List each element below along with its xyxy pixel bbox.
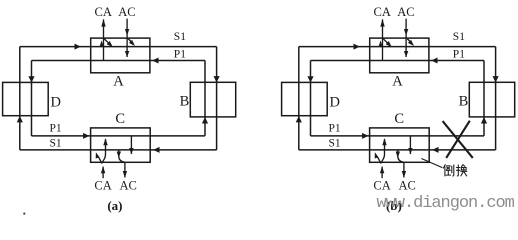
wire S1 top horizontal (a) [20,46,217,48]
svg-text:A: A [392,74,403,90]
box A (a) [91,38,150,73]
wire CA input below box C (b) [381,167,383,179]
switch blade diagonal right in box A (a) [128,39,132,43]
svg-text:AC: AC [118,5,135,19]
wire S1 right vertical (b) [495,47,497,150]
switch blade diagonal left in box C (a) [99,157,103,163]
arrow CA up terminal box A (a) [101,19,105,27]
wire P1 left vertical (a) [31,61,33,136]
svg-text:S1: S1 [174,31,186,43]
svg-text:P1: P1 [174,48,186,60]
box B (a) [190,82,235,117]
arrow P1 bottom flow right into C (b) [362,133,368,139]
box C (a) [91,128,151,162]
arrow AC down into box A (a) [125,29,129,36]
arrow CA up terminal box A (b) [380,19,384,27]
svg-text:A: A [113,74,124,90]
diagram (a) left [3,5,236,213]
wire P1 drop in box C (a) [130,136,132,154]
arrow CA up into box C (b) [380,166,384,173]
svg-text:P1: P1 [50,122,62,134]
wire S1 left vertical (a) [19,47,21,150]
diagram (b) right [282,5,515,213]
svg-text:www.diangon.com: www.diangon.com [377,194,515,213]
switch blade diagonal left in box A (b) [383,39,389,44]
arrow AC down to P1 in box A (b) [404,51,408,57]
svg-text:CA: CA [373,179,390,193]
box D (b) [282,82,328,115]
svg-text:B: B [459,93,469,109]
wire AC input line in box A (b) [405,19,407,57]
arrow S1 top flow right (b) [354,44,360,50]
wire S1 bottom horizontal (b) [299,149,496,151]
wire P1 bottom horizontal (a) [32,135,206,137]
switch blade diagonal left in box A (a) [104,39,110,44]
wire CA input below box C (a) [102,167,104,179]
wire AC output from S1 in box C (b) [398,150,404,178]
wire S1 left vertical (b) [298,47,300,150]
svg-text:P1: P1 [329,122,341,134]
wire P1 bottom horizontal (b) [311,135,485,137]
wire CA riser in box C (a) [102,139,105,163]
svg-text:AC: AC [120,179,137,193]
svg-text:B: B [180,93,190,109]
arrow down into box D top (a) [28,76,34,82]
arrow P1 top flow left into A (a) [152,58,158,64]
wire P1 top horizontal (a) [32,60,206,62]
arrow AC down into box A (b) [404,29,408,36]
wire CA output line in box A (b) [382,19,384,60]
arrow down into box B top (b) [493,76,499,82]
svg-text:S1: S1 [50,138,62,150]
X cross-out mark over S1/P1 lines (b) [443,121,473,158]
arrow up into box D bottom (b) [296,116,302,122]
svg-text:S1: S1 [453,31,465,43]
wire S1 right vertical (a) [216,47,218,150]
svg-text:D: D [51,94,61,110]
svg-text:(a): (a) [107,198,122,213]
wire CA riser in box C (b) [381,139,384,163]
switch blade diagonal left in box C (b) [378,157,382,163]
arrow up toward S1 in box A (b) [379,40,383,46]
arrow up into box D bottom (a) [17,116,23,122]
wire P1 drop in box C (b) [409,136,411,154]
leader line to daohuan label (b) [421,159,442,168]
arrow AC down from S1 in box C (a) [117,152,121,158]
arrow up into box B bottom (a) [202,117,208,123]
svg-text:CA: CA [374,5,391,19]
arrow CA up into box C (a) [101,166,105,173]
svg-text:S1: S1 [329,138,341,150]
arrow AC down from S1 in box C (b) [396,152,400,158]
arrow up toward S1 in box A (a) [100,40,104,46]
wire P1 right vertical (b) [483,61,485,136]
svg-text:D: D [330,94,340,110]
arrow down into box D top (b) [307,76,313,82]
wire P1 right vertical (a) [204,61,206,136]
svg-text:P1: P1 [453,48,465,60]
arrow down into box B top (a) [214,76,220,82]
wire AC input line in box A (a) [126,19,128,57]
wire S1 bottom horizontal (a) [20,149,217,151]
box C (b) [370,128,430,162]
wire CA output line in box A (a) [103,19,105,60]
box B (b) [469,82,514,117]
arrow AC down to P1 in box A (a) [125,51,129,57]
svg-text:AC: AC [397,5,414,19]
arrow S1 top flow right (a) [75,44,81,50]
label daohuan (Chinese: switch over) (b) [443,165,467,176]
arrow P1 top flow left into A (b) [431,58,437,64]
svg-text:C: C [115,111,125,127]
stray dot bottom left [23,213,25,215]
arrow S1 bottom flow left into C (b) [432,147,438,153]
wire AC output from S1 in box C (a) [119,150,125,178]
wire P1 top horizontal (b) [311,60,485,62]
arrow P1 bottom flow right into C (a) [83,133,89,139]
svg-text:AC: AC [399,179,416,193]
arrow down from P1 in box C (b) [408,148,412,154]
svg-text:CA: CA [95,5,112,19]
wire S1 top horizontal (b) [299,46,496,48]
wire P1 left vertical (b) [310,61,312,136]
arrow up into box B bottom (b) [481,117,487,123]
svg-text:CA: CA [94,179,111,193]
arrow AC down terminal box C (a) [123,171,127,178]
arrow up to P1 in box C (a) [103,138,107,145]
svg-text:C: C [394,111,404,127]
box D (a) [3,82,49,115]
box A (b) [370,38,429,73]
arrow AC down terminal box C (b) [402,171,406,178]
arrow S1 bottom flow left into C (a) [153,147,159,153]
arrow up to P1 in box C (b) [382,138,386,145]
arrow down from P1 in box C (a) [129,148,133,154]
switch blade diagonal right in box A (b) [407,39,411,43]
